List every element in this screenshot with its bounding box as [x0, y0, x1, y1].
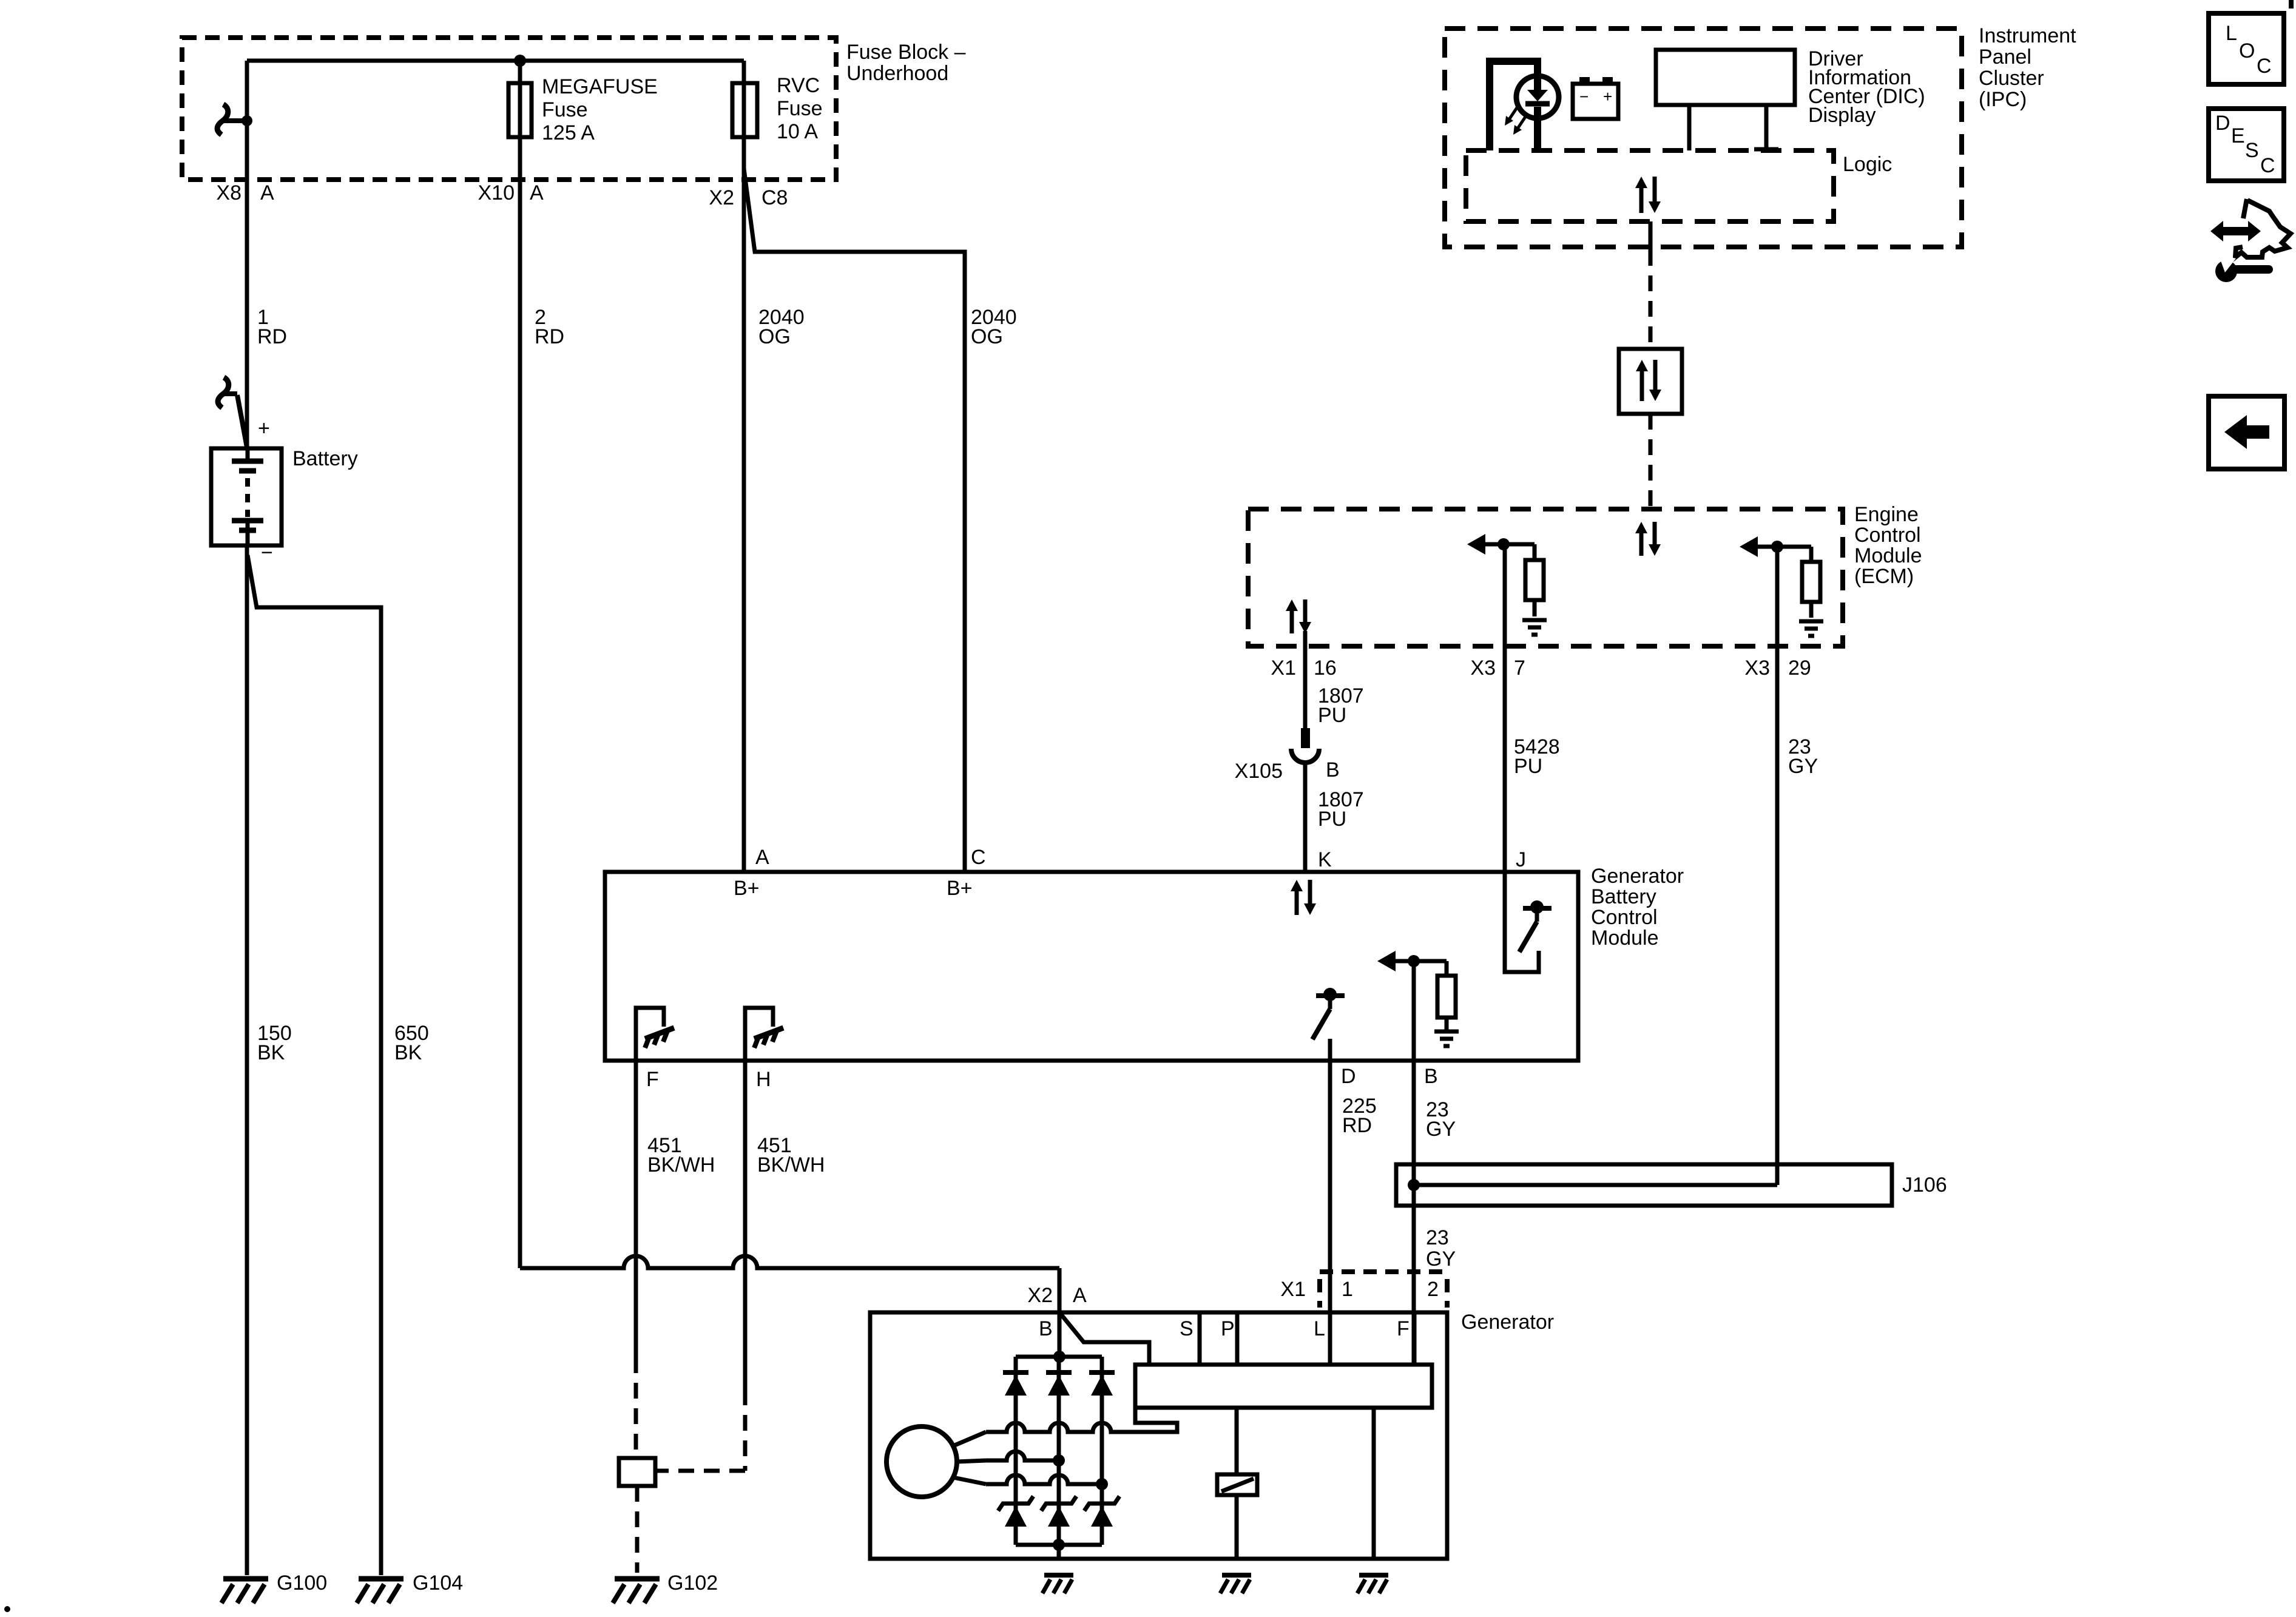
svg-text:G104: G104	[413, 1571, 463, 1595]
svg-text:GY: GY	[1426, 1118, 1456, 1141]
svg-text:J: J	[1516, 848, 1526, 871]
svg-text:F: F	[646, 1068, 659, 1091]
svg-text:E: E	[2231, 124, 2245, 147]
svg-text:Display: Display	[1808, 104, 1876, 127]
svg-text:A: A	[530, 181, 544, 204]
svg-text:RVC: RVC	[777, 74, 820, 97]
svg-text:Panel: Panel	[1979, 46, 2031, 69]
svg-text:Generator: Generator	[1591, 865, 1684, 888]
svg-text:(ECM): (ECM)	[1854, 565, 1914, 588]
svg-text:Fuse Block –: Fuse Block –	[846, 41, 966, 64]
svg-text:B: B	[1424, 1065, 1438, 1088]
svg-text:Module: Module	[1854, 544, 1922, 567]
svg-text:125 A: 125 A	[542, 121, 595, 144]
svg-text:C: C	[971, 846, 986, 869]
svg-text:Underhood: Underhood	[846, 62, 948, 85]
svg-text:Module: Module	[1591, 927, 1659, 950]
svg-text:G102: G102	[667, 1571, 718, 1595]
svg-text:Logic: Logic	[1843, 153, 1892, 176]
svg-text:B+: B+	[734, 877, 760, 900]
svg-text:16: 16	[1314, 657, 1337, 680]
svg-text:X10: X10	[478, 181, 515, 204]
svg-text:−: −	[261, 541, 273, 564]
svg-text:GY: GY	[1426, 1247, 1456, 1271]
svg-text:L: L	[2226, 22, 2237, 45]
svg-text:7: 7	[1514, 657, 1525, 680]
svg-text:A: A	[260, 181, 274, 204]
svg-text:X2: X2	[1027, 1284, 1053, 1307]
svg-text:RD: RD	[257, 325, 287, 348]
svg-text:J106: J106	[1902, 1173, 1947, 1197]
svg-text:BK: BK	[257, 1041, 285, 1064]
svg-text:C: C	[2257, 55, 2272, 78]
svg-text:B+: B+	[947, 877, 973, 900]
svg-text:A: A	[1073, 1284, 1087, 1307]
svg-text:X1: X1	[1280, 1278, 1306, 1301]
svg-text:Battery: Battery	[1591, 885, 1656, 908]
svg-text:BK/WH: BK/WH	[757, 1153, 825, 1176]
svg-text:C8: C8	[761, 186, 788, 209]
svg-text:GY: GY	[1788, 755, 1818, 778]
svg-text:X8: X8	[216, 181, 241, 204]
svg-text:29: 29	[1788, 657, 1811, 680]
svg-text:Fuse: Fuse	[542, 98, 588, 121]
svg-text:BK: BK	[394, 1041, 422, 1064]
svg-text:(IPC): (IPC)	[1979, 88, 2027, 111]
svg-text:P: P	[1221, 1317, 1235, 1340]
svg-text:Cluster: Cluster	[1979, 67, 2044, 90]
svg-text:10 A: 10 A	[777, 120, 818, 143]
svg-text:MEGAFUSE: MEGAFUSE	[542, 75, 658, 98]
svg-text:Control: Control	[1854, 524, 1921, 547]
svg-text:X105: X105	[1235, 760, 1283, 783]
svg-text:+: +	[1603, 87, 1612, 106]
svg-text:Instrument: Instrument	[1979, 24, 2076, 47]
svg-text:Engine: Engine	[1854, 503, 1919, 526]
svg-text:2: 2	[1427, 1278, 1439, 1301]
svg-text:PU: PU	[1318, 808, 1346, 831]
svg-text:BK/WH: BK/WH	[647, 1153, 715, 1176]
svg-text:Battery: Battery	[292, 447, 358, 470]
svg-text:F: F	[1397, 1317, 1410, 1340]
svg-text:X3: X3	[1744, 657, 1770, 680]
svg-text:G100: G100	[277, 1571, 327, 1595]
svg-text:S: S	[2245, 139, 2259, 162]
svg-text:C: C	[2260, 154, 2275, 177]
svg-text:OG: OG	[971, 325, 1003, 348]
svg-text:PU: PU	[1318, 704, 1346, 727]
svg-text:H: H	[756, 1068, 771, 1091]
svg-text:1: 1	[1342, 1278, 1353, 1301]
svg-text:L: L	[1314, 1317, 1325, 1340]
svg-text:+: +	[258, 417, 270, 440]
svg-text:O: O	[2239, 39, 2255, 62]
svg-text:23: 23	[1426, 1226, 1449, 1249]
svg-text:X3: X3	[1470, 657, 1496, 680]
svg-text:K: K	[1318, 848, 1332, 871]
svg-text:A: A	[755, 846, 769, 869]
svg-text:−: −	[1579, 87, 1589, 106]
svg-text:X2: X2	[709, 186, 734, 209]
svg-text:Fuse: Fuse	[777, 97, 823, 120]
svg-text:X1: X1	[1271, 657, 1296, 680]
svg-text:D: D	[1341, 1065, 1356, 1088]
svg-text:D: D	[2215, 112, 2230, 135]
svg-text:Control: Control	[1591, 906, 1658, 929]
svg-text:PU: PU	[1514, 755, 1542, 778]
svg-text:RD: RD	[1342, 1114, 1372, 1137]
svg-text:S: S	[1180, 1317, 1194, 1340]
svg-text:B: B	[1039, 1317, 1053, 1340]
svg-text:B: B	[1326, 758, 1340, 781]
svg-text:RD: RD	[535, 325, 564, 348]
svg-text:OG: OG	[758, 325, 791, 348]
svg-text:Generator: Generator	[1461, 1311, 1554, 1334]
